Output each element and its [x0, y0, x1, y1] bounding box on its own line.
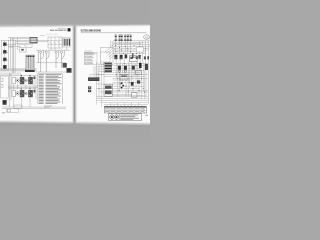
tiny note text	[44, 105, 52, 108]
fuse row	[115, 34, 132, 41]
connector pins in J2	[64, 39, 70, 46]
big outline box lower-left	[1, 76, 8, 98]
junction dots	[99, 63, 147, 92]
wire fan diagonals	[105, 45, 116, 59]
box drop wires	[51, 47, 67, 50]
diode internal wires	[48, 37, 62, 48]
fuse F5	[127, 36, 129, 40]
riser wires	[111, 41, 113, 48]
label above diode box	[40, 34, 46, 37]
battery symbol right	[144, 35, 150, 39]
sub box a	[1, 78, 3, 81]
relay K4	[3, 65, 7, 69]
page number left	[2, 111, 5, 114]
wire stubs	[38, 50, 61, 72]
fuse labels	[115, 33, 117, 36]
table header band	[104, 106, 146, 107]
busbar dark	[25, 70, 35, 72]
dark vertical bar	[132, 53, 133, 58]
connector box J2	[63, 38, 70, 48]
dark blob	[137, 80, 140, 83]
connector stub a	[33, 76, 35, 79]
note above table	[84, 50, 92, 53]
terminal table text	[85, 54, 94, 64]
connector detail table	[108, 114, 141, 121]
bar feed wires	[90, 66, 104, 78]
connector face B	[114, 115, 118, 119]
wires lower-left	[2, 73, 66, 109]
connector strip outline	[26, 55, 35, 71]
fuse drop wires	[116, 41, 131, 54]
fuse caps	[26, 56, 34, 57]
dark striped connector CN1	[104, 62, 112, 72]
header text small line 1	[58, 27, 67, 30]
contact dots	[121, 83, 123, 85]
outline box lower	[132, 93, 138, 98]
terminal table	[84, 52, 97, 64]
component box with stipples	[104, 84, 113, 96]
legend table frame	[38, 74, 63, 104]
wire mid horizontal	[36, 49, 70, 51]
fuse F2	[119, 36, 121, 40]
wire top horizontals	[8, 38, 48, 45]
relay box mid	[120, 74, 128, 80]
diode box U1	[48, 37, 62, 48]
dark blob	[131, 82, 134, 86]
right vertical wires	[140, 41, 149, 104]
wide parts table	[104, 106, 146, 113]
stacked connectors left	[88, 86, 91, 89]
detail rows	[118, 114, 120, 121]
gutter shadow between pages	[71, 24, 78, 125]
dark mark row	[136, 56, 138, 59]
component box	[130, 56, 138, 62]
hatched component block	[30, 37, 37, 43]
harness band lower	[0, 72, 21, 75]
sub box b	[1, 84, 3, 87]
solenoid hook B2	[60, 51, 62, 53]
harness band upper	[0, 68, 37, 71]
bottom gray band	[0, 122, 154, 154]
svg-text:ELECTRICAL WIRING DIAGRAMS: ELECTRICAL WIRING DIAGRAMS	[81, 29, 101, 33]
white cover box	[137, 47, 144, 52]
bus wires horizontal	[113, 41, 150, 104]
lower outline box	[7, 109, 19, 113]
fuse bars in connector strip	[26, 57, 34, 69]
assembly riser wires	[14, 74, 36, 107]
fuse F1	[115, 36, 117, 40]
dark blob	[138, 55, 140, 59]
inner box	[100, 52, 110, 62]
CN1 stub wires	[97, 64, 105, 72]
big box outer	[100, 48, 113, 65]
diode symbols	[50, 42, 60, 44]
wire lower horizontal	[36, 63, 66, 72]
misc short wires	[9, 43, 33, 48]
pump assembly 1	[12, 75, 33, 84]
contact dot in K5	[21, 49, 23, 51]
page number right	[145, 114, 148, 117]
table tick wires	[107, 103, 142, 107]
fuse F6	[130, 36, 132, 40]
small box K5	[20, 48, 27, 53]
junction dot row	[115, 45, 146, 54]
mid-right wire grid	[97, 56, 149, 107]
outline box upper-right	[136, 70, 142, 75]
connector stub b	[33, 90, 35, 93]
header text line 2 words	[50, 30, 54, 31]
relay K6	[3, 100, 7, 105]
relay K1	[3, 42, 7, 46]
title rule	[81, 32, 147, 34]
pump assembly 2	[12, 88, 33, 97]
relay K3	[3, 58, 7, 62]
dark connector blobs row	[114, 55, 117, 59]
dark module M0	[63, 63, 67, 68]
left stippled connector bar	[88, 78, 99, 81]
dark module M1	[66, 68, 71, 73]
legend rows	[39, 74, 62, 104]
solenoid hook B1	[55, 51, 57, 53]
relay K2	[3, 50, 7, 54]
solenoid hook A2	[45, 51, 47, 53]
connector face A	[110, 115, 114, 119]
top gray band	[0, 0, 154, 27]
faint subtitle text	[46, 33, 58, 36]
wire vertical bus	[11, 38, 18, 74]
relay box outline left	[1, 40, 8, 70]
section border line	[0, 75, 38, 77]
solenoid hook A1	[38, 50, 64, 72]
page spread background	[0, 24, 150, 125]
header section number black box	[68, 28, 71, 31]
fuse F3	[121, 36, 123, 40]
terminal table header text	[85, 52, 94, 55]
dark blobs mid-right	[118, 66, 121, 70]
relay chain wire	[3, 40, 9, 70]
bottom page edge shadow	[0, 121, 150, 124]
fuse F4	[124, 36, 126, 40]
